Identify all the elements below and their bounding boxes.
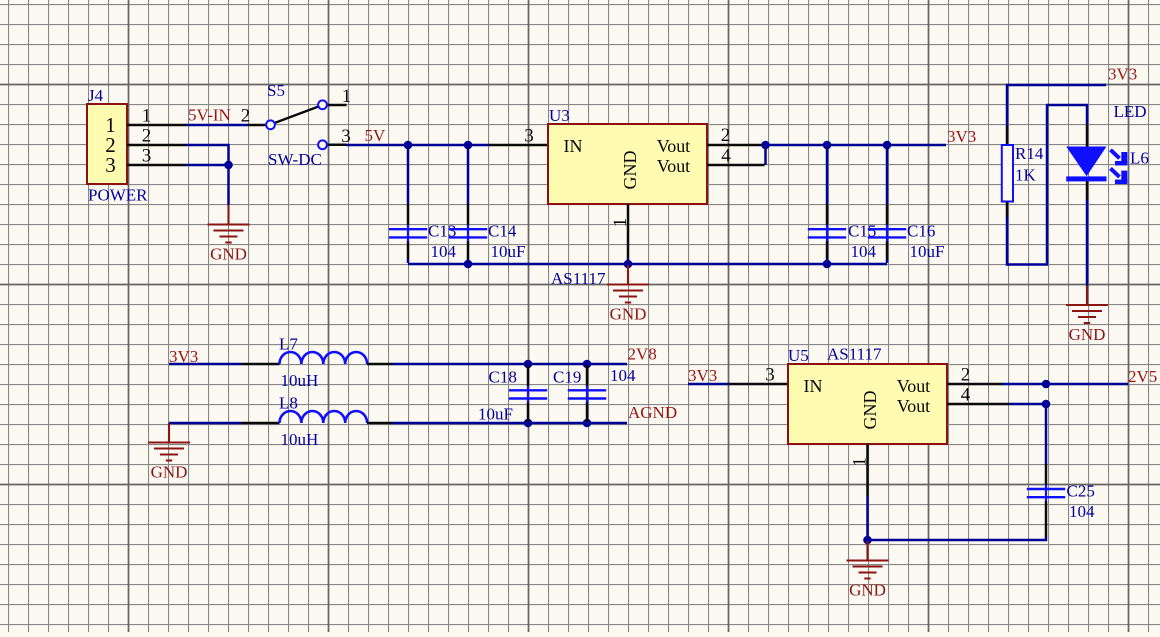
svg-text:Vout: Vout — [657, 136, 690, 156]
junction U5 out — [1042, 380, 1051, 389]
svg-text:L7: L7 — [279, 335, 298, 354]
wire 2V8 net — [392, 363, 627, 366]
wire pin4 to C25 — [1009, 404, 1046, 464]
svg-text:3V3: 3V3 — [1108, 65, 1137, 84]
junction C14 top — [464, 141, 473, 150]
ground AGND — [148, 423, 190, 482]
U5 pin 4 Vout — [947, 385, 1009, 406]
svg-text:10uF: 10uF — [478, 405, 513, 424]
capacitor C25 — [1027, 464, 1095, 537]
wire R14 to LED anode — [1007, 105, 1087, 265]
inductor L7 — [241, 335, 392, 391]
svg-text:10uH: 10uH — [281, 371, 319, 390]
U5 pin 3 IN — [729, 365, 788, 386]
ground U5 GND — [847, 541, 889, 600]
svg-text:1: 1 — [342, 86, 352, 107]
svg-text:1: 1 — [850, 457, 871, 467]
svg-text:3V3: 3V3 — [688, 366, 717, 385]
U3 pin 4 Vout — [707, 146, 765, 167]
junction C19 top — [583, 360, 592, 369]
svg-text:GND: GND — [860, 391, 880, 430]
svg-text:5V-IN: 5V-IN — [188, 106, 231, 125]
svg-text:2V5: 2V5 — [1128, 367, 1157, 386]
junction C15 bottom — [823, 260, 832, 269]
svg-text:3: 3 — [142, 146, 152, 167]
wire 3V3 to U5 — [688, 383, 729, 386]
svg-text:AS1117: AS1117 — [827, 345, 882, 364]
svg-text:104: 104 — [1069, 502, 1095, 521]
wire LED cathode to gnd — [1086, 200, 1089, 286]
svg-text:10uF: 10uF — [910, 242, 945, 261]
svg-text:GND: GND — [849, 581, 886, 600]
wire J4 pin2 to gnd — [186, 145, 229, 205]
capacitor C15 — [808, 146, 877, 263]
junction C19 bottom — [583, 419, 592, 428]
wire 5V net — [347, 144, 490, 147]
svg-text:2: 2 — [721, 125, 731, 146]
svg-text:L8: L8 — [279, 394, 298, 413]
svg-text:C16: C16 — [907, 222, 935, 241]
J4 pin 1 — [127, 106, 186, 127]
U5 pin 1 GND — [850, 444, 871, 496]
svg-text:C25: C25 — [1067, 481, 1095, 500]
junction C16 top — [883, 141, 892, 150]
svg-text:1K: 1K — [1015, 166, 1037, 185]
junction C18 bottom — [524, 419, 533, 428]
svg-text:10uH: 10uH — [281, 430, 319, 449]
svg-text:1: 1 — [142, 106, 152, 127]
svg-text:R14: R14 — [1015, 144, 1044, 163]
op-amp/regulator U5 body — [788, 345, 947, 445]
svg-text:LED: LED — [1114, 102, 1147, 121]
svg-text:Vout: Vout — [897, 376, 930, 396]
svg-text:U3: U3 — [549, 106, 570, 125]
capacitor C16 — [868, 146, 945, 263]
junction J4 gnd — [224, 161, 233, 170]
svg-text:104: 104 — [851, 242, 877, 261]
svg-text:3: 3 — [765, 365, 775, 386]
svg-text:AGND: AGND — [628, 403, 677, 422]
svg-text:3: 3 — [524, 126, 534, 147]
capacitor C19 — [568, 365, 606, 422]
wire AGND net — [392, 422, 627, 425]
svg-text:5V: 5V — [365, 126, 387, 145]
svg-text:GND: GND — [610, 305, 647, 324]
svg-text:C14: C14 — [488, 222, 517, 241]
svg-text:GND: GND — [210, 245, 247, 264]
capacitor C18 — [509, 365, 547, 422]
svg-text:C19: C19 — [553, 368, 581, 387]
ground LED GND — [1066, 286, 1108, 345]
svg-text:AS1117: AS1117 — [551, 269, 606, 288]
junction U5 gnd — [863, 536, 872, 545]
svg-text:2V8: 2V8 — [628, 345, 657, 364]
wire 5V-IN net — [186, 124, 248, 127]
junction C13 top — [404, 141, 413, 150]
svg-text:2: 2 — [241, 106, 251, 127]
inductor L8 — [241, 394, 392, 450]
wire U3 gnd — [627, 258, 630, 264]
wire gnd bus top — [408, 263, 887, 266]
svg-text:L6: L6 — [1130, 149, 1149, 168]
ground U3 GND — [607, 265, 649, 324]
svg-text:3V3: 3V3 — [947, 127, 976, 146]
svg-text:S5: S5 — [267, 81, 285, 100]
wire 3V3 LED branch — [1007, 85, 1106, 126]
svg-text:POWER: POWER — [88, 186, 148, 205]
wire pin4 to pin2 — [764, 145, 767, 165]
svg-text:2: 2 — [142, 126, 152, 147]
U5 pin 2 Vout — [947, 365, 1002, 386]
U3 pin 1 GND — [610, 204, 631, 258]
wire 2V5 net — [1002, 383, 1128, 386]
svg-text:Vout: Vout — [897, 396, 930, 416]
svg-text:3: 3 — [105, 153, 116, 177]
wire C25 bottom to gnd — [867, 537, 1046, 540]
svg-text:GND: GND — [1069, 325, 1106, 344]
svg-text:104: 104 — [431, 242, 457, 261]
junction U5 pin4 — [1042, 400, 1051, 409]
svg-text:C18: C18 — [489, 368, 517, 387]
wire 3V3 net top — [766, 144, 947, 147]
capacitor C13 — [389, 146, 457, 263]
LED L6 — [1066, 102, 1149, 200]
svg-text:Vout: Vout — [657, 156, 690, 176]
svg-text:GND: GND — [151, 463, 188, 482]
op-amp/regulator U3 body — [548, 106, 707, 288]
switch S5 — [241, 81, 352, 169]
svg-text:10uF: 10uF — [491, 242, 526, 261]
U3 pin 3 IN — [489, 126, 548, 147]
junction U3 outputs — [761, 141, 770, 150]
wire 3V3 to L7 — [169, 363, 241, 366]
ground AGND-left wire — [169, 422, 241, 425]
J4 pin 3 — [127, 146, 186, 167]
svg-text:GND: GND — [620, 151, 640, 190]
svg-text:1: 1 — [610, 218, 631, 228]
capacitor C14 — [449, 146, 526, 263]
junction U3 gnd bus — [624, 260, 633, 269]
ground power GND — [208, 205, 250, 264]
svg-text:2: 2 — [961, 365, 971, 386]
junction C18 top — [524, 360, 533, 369]
U3 pin 2 Vout — [707, 125, 763, 146]
wire U5 gnd — [866, 496, 869, 540]
svg-text:IN: IN — [564, 136, 583, 156]
J4 pin 2 — [127, 126, 186, 147]
resistor R14 — [1002, 126, 1044, 217]
svg-text:U5: U5 — [788, 346, 809, 365]
svg-text:J4: J4 — [88, 86, 104, 105]
junction C15 top — [823, 141, 832, 150]
junction C14 bottom — [464, 260, 473, 269]
svg-text:IN: IN — [804, 376, 823, 396]
svg-text:4: 4 — [961, 385, 971, 406]
svg-text:4: 4 — [721, 146, 731, 167]
svg-text:104: 104 — [610, 366, 636, 385]
svg-text:SW-DC: SW-DC — [268, 150, 322, 169]
connector J4 — [87, 86, 148, 205]
